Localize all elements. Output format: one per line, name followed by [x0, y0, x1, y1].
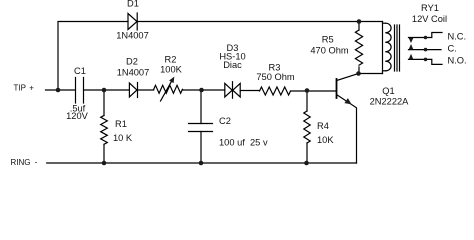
svg-text:120V: 120V — [66, 111, 89, 121]
svg-text:R2: R2 — [165, 55, 177, 65]
svg-text:RING: RING — [11, 158, 31, 167]
svg-text:N.C.: N.C. — [448, 31, 467, 41]
svg-text:Diac: Diac — [223, 60, 242, 70]
svg-text:Q1: Q1 — [382, 86, 394, 96]
svg-text:470 Ohm: 470 Ohm — [310, 45, 348, 55]
svg-text:TIP: TIP — [14, 84, 26, 93]
svg-text:D1: D1 — [127, 0, 139, 9]
svg-text:100 uf 25 v: 100 uf 25 v — [219, 138, 268, 148]
svg-text:10K: 10K — [317, 135, 334, 145]
svg-text:C.: C. — [448, 43, 457, 53]
svg-text:N.O.: N.O. — [448, 56, 467, 66]
svg-text:D2: D2 — [126, 57, 138, 67]
svg-text:750 Ohm: 750 Ohm — [256, 72, 294, 82]
svg-text:2N2222A: 2N2222A — [370, 97, 410, 107]
svg-text:100K: 100K — [160, 65, 183, 75]
svg-text:1N4007: 1N4007 — [117, 68, 150, 78]
svg-text:+: + — [29, 83, 34, 92]
svg-text:C1: C1 — [74, 66, 86, 76]
svg-text:RY1: RY1 — [421, 3, 439, 13]
svg-text:R1: R1 — [115, 119, 127, 129]
svg-text:1N4007: 1N4007 — [116, 31, 149, 41]
svg-text:-: - — [35, 158, 38, 167]
svg-text:12V Coil: 12V Coil — [412, 14, 447, 24]
svg-text:R3: R3 — [269, 63, 281, 73]
svg-text:C2: C2 — [219, 116, 231, 126]
svg-text:R5: R5 — [322, 35, 334, 45]
svg-text:R4: R4 — [317, 121, 329, 131]
svg-text:10 K: 10 K — [113, 133, 133, 143]
